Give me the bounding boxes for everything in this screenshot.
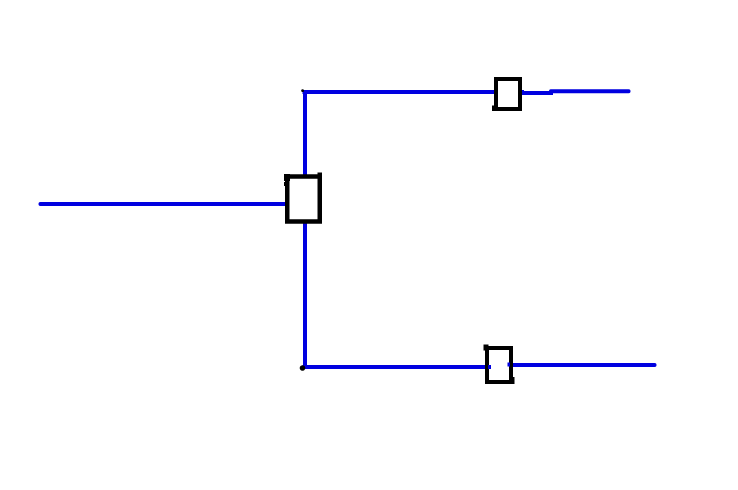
wire input left xyxy=(41,202,291,206)
pen nub bottom block bottom-right xyxy=(509,377,515,384)
wire bottom branch left segment xyxy=(303,365,491,369)
wire stub inside bottom block right xyxy=(508,363,511,367)
component block top branch xyxy=(496,79,520,109)
pen tick center block left edge xyxy=(284,182,287,186)
pen nub center block top-right xyxy=(318,173,323,177)
junction dot bottom corner xyxy=(300,365,306,371)
wire stub inside bottom block left xyxy=(488,365,491,369)
wire top branch jog segment xyxy=(521,91,553,95)
junction dot top corner xyxy=(301,89,304,92)
wire bottom branch right segment xyxy=(510,363,655,367)
component block bottom branch xyxy=(487,348,511,382)
pen nub top block bottom-left xyxy=(492,106,497,112)
wire top branch right segment xyxy=(551,89,629,93)
pen nub bottom block top-left xyxy=(484,345,489,351)
wire top branch xyxy=(303,90,525,94)
component block center xyxy=(287,177,320,222)
pen nub center block top-left xyxy=(284,174,290,181)
wire vertical bus xyxy=(303,90,307,369)
